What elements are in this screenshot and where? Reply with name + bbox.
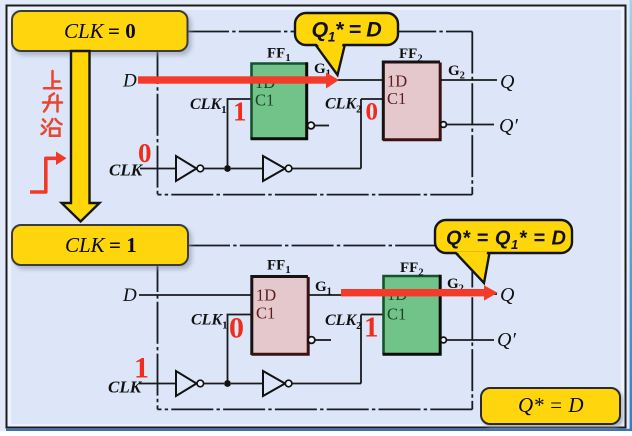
svg-text:0: 0	[138, 138, 152, 168]
red signal arrow FF1-G1 through FF2 to Q (bottom)	[341, 289, 484, 296]
svg-text:C1: C1	[256, 304, 275, 323]
callout Q*=D (bottom right)	[481, 388, 620, 424]
wire G1: FF1 output to FF2 1D (bottom)	[308, 294, 384, 296]
FF1 inverted output bubble and stub (top)	[308, 122, 315, 129]
svg-text:C1: C1	[387, 89, 406, 108]
svg-text:Q1* = D: Q1* = D	[312, 18, 382, 45]
wire CLK2 net (top)	[292, 99, 384, 169]
svg-text:C1: C1	[387, 305, 406, 324]
svg-text:= 1: = 1	[109, 233, 137, 257]
wire CLK to inverter (top)	[140, 168, 176, 170]
svg-text:1D: 1D	[256, 286, 276, 305]
svg-text:CLK: CLK	[64, 19, 105, 43]
wire junction to U2 (top)	[231, 168, 262, 170]
svg-text:Q: Q	[500, 284, 515, 306]
svg-text:= 0: = 0	[108, 19, 136, 43]
bottom dash-dot enclosure	[158, 246, 473, 410]
red signal arrow D through FF1 (top)	[138, 76, 326, 83]
flip-flop FF1 (top)	[252, 64, 307, 139]
top dash-dot enclosure	[158, 32, 473, 195]
wire junction to U2 (bottom)	[231, 383, 262, 385]
svg-text:Q′: Q′	[499, 115, 518, 137]
svg-text:0: 0	[366, 99, 379, 126]
callout Q1*=D (top)	[295, 13, 398, 75]
wire CLK1 net (bottom)	[228, 315, 253, 384]
svg-text:D: D	[122, 285, 137, 306]
wire U1 to junction (top)	[204, 168, 224, 170]
wire CLK2 net (bottom)	[292, 315, 384, 384]
wire Q output (top)	[440, 79, 497, 81]
flip-flop FF2 (bottom)	[384, 276, 441, 354]
inverter U2 (top)	[263, 156, 285, 181]
wire G1: FF1 output to FF2 1D (top)	[307, 79, 384, 81]
FF1 inverted output bubble and stub (bottom)	[308, 337, 315, 344]
svg-text:1: 1	[364, 312, 379, 344]
right edge blue stripe	[630, 0, 632, 431]
inverter U2 (bottom)	[263, 371, 285, 396]
rising-edge big yellow down arrow	[62, 51, 100, 222]
svg-text:C1: C1	[255, 91, 274, 110]
svg-text:Q: Q	[500, 71, 515, 93]
wire Q' output (bottom)	[447, 339, 494, 341]
wire D to FF1 (bottom)	[139, 294, 252, 296]
svg-text:0: 0	[229, 312, 244, 345]
wire CLK to inverter (bottom)	[139, 383, 175, 385]
svg-text:1D: 1D	[387, 72, 407, 91]
svg-text:1: 1	[134, 352, 149, 385]
wire U1 to junction (bottom)	[204, 383, 224, 385]
wire Q output (bottom)	[440, 293, 497, 295]
junction dot (top)	[224, 165, 231, 172]
rising edge symbol	[30, 158, 60, 192]
FF2 inverted output bubble (bottom)	[441, 337, 447, 343]
bottom edge blue stripe	[6, 429, 632, 431]
wire D to FF1 (top)	[139, 79, 251, 81]
wire CLK1 net (top)	[228, 99, 252, 169]
svg-text:Q′: Q′	[497, 329, 516, 351]
callout CLK=1	[12, 225, 188, 265]
svg-text:1: 1	[233, 97, 247, 127]
svg-text:Q* = Q1* = D: Q* = Q1* = D	[446, 228, 567, 253]
junction dot (bottom)	[224, 380, 231, 387]
label 沿 (yan)	[42, 119, 62, 136]
svg-text:D: D	[122, 71, 137, 92]
svg-text:CLK: CLK	[65, 233, 106, 257]
callout CLK=0	[12, 11, 188, 51]
flip-flop FF1 (bottom)	[252, 278, 308, 355]
flip-flop FF2 (top)	[384, 63, 441, 140]
inverter U1 (top)	[176, 156, 197, 181]
inverter U1 (bottom)	[176, 371, 197, 396]
label 上 (shang)	[44, 71, 61, 88]
wire Q' output (top)	[447, 124, 494, 126]
svg-text:Q* = D: Q* = D	[518, 393, 584, 417]
label 升 (sheng)	[43, 94, 62, 112]
callout Q*=Q1*=D (bottom)	[435, 220, 572, 283]
FF2 inverted output bubble (top)	[441, 122, 447, 128]
